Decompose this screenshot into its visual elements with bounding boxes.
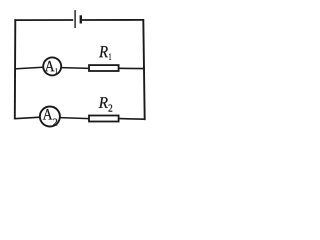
wire: top left segment (top-left corner to battery) <box>14 19 73 21</box>
ammeter A2 subscript 2 <box>53 119 57 126</box>
ammeter A1 circle <box>43 57 61 75</box>
wire: middle branch, left wire to ammeter A1 <box>15 67 43 69</box>
wire: bottom branch, left wire to ammeter A2 <box>14 117 40 119</box>
wire: resistor R2 to right vertical <box>119 118 145 121</box>
ammeter A2 circle <box>40 107 60 127</box>
battery B: short thick plate (right, negative) <box>80 15 82 23</box>
label R2 subscript 2 <box>108 104 112 111</box>
wire: ammeter A1 to resistor R1 <box>62 67 89 70</box>
wire: right vertical <box>143 19 144 120</box>
wire: ammeter A2 to resistor R2 <box>60 118 89 119</box>
wire: left vertical <box>14 19 17 119</box>
ammeter A2 letter A <box>43 109 53 120</box>
battery B: long plate (left, positive) <box>74 10 76 28</box>
label R1 letter R <box>99 46 108 57</box>
wire: top right segment (battery to top-right corner) <box>82 19 144 21</box>
ammeter A1 letter A <box>45 61 55 71</box>
label R2 letter R <box>99 97 108 108</box>
label R1 subscript 1 <box>109 54 111 60</box>
wire: resistor R1 to right vertical <box>119 67 145 69</box>
resistor R1 box <box>89 65 119 71</box>
ammeter A1 subscript 1 <box>55 68 57 73</box>
resistor R2 box <box>89 116 119 122</box>
